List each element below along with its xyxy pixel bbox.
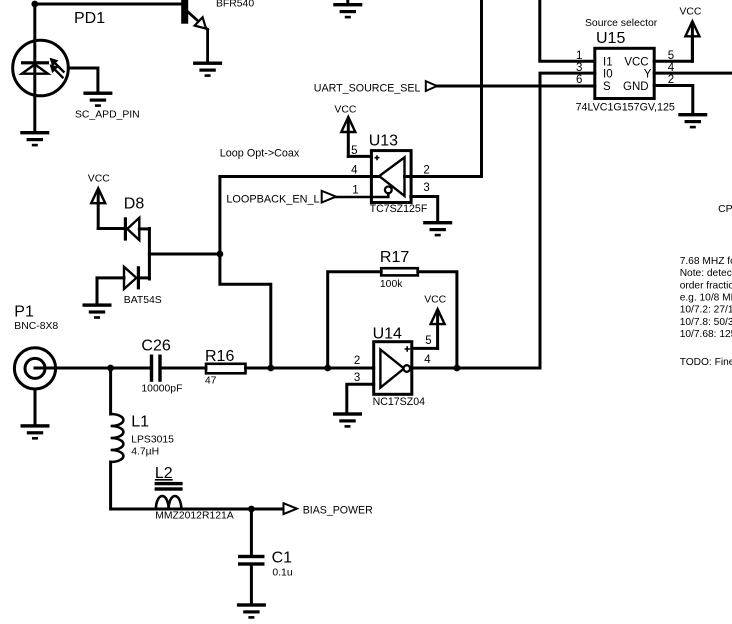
svg-text:GND: GND — [623, 81, 649, 93]
svg-text:I0: I0 — [603, 68, 613, 80]
svg-text:VCC: VCC — [680, 7, 702, 18]
svg-text:BIAS_POWER: BIAS_POWER — [303, 504, 373, 516]
svg-text:D8: D8 — [124, 195, 145, 212]
svg-text:P1: P1 — [14, 304, 34, 321]
svg-text:UART_SOURCE_SEL: UART_SOURCE_SEL — [314, 82, 421, 94]
svg-text:BAT54S: BAT54S — [124, 295, 162, 306]
svg-text:5: 5 — [425, 335, 431, 347]
svg-text:SC_APD_PIN: SC_APD_PIN — [75, 110, 140, 121]
svg-text:R16: R16 — [205, 348, 234, 365]
svg-text:10000pF: 10000pF — [141, 384, 182, 395]
svg-text:e.g. 10/8 MHZ: e.g. 10/8 MHZ — [680, 292, 732, 303]
svg-text:6: 6 — [576, 74, 582, 86]
svg-text:PD1: PD1 — [74, 10, 105, 27]
svg-text:10/7.68: 125/96 M: 10/7.68: 125/96 M — [680, 329, 732, 340]
svg-text:2: 2 — [423, 164, 429, 176]
svg-text:47: 47 — [205, 375, 217, 386]
svg-text:Source selector: Source selector — [585, 18, 658, 29]
svg-text:I1: I1 — [603, 56, 613, 68]
svg-text:2: 2 — [354, 355, 360, 367]
svg-text:BNC-8X8: BNC-8X8 — [14, 321, 58, 332]
svg-text:C26: C26 — [141, 338, 170, 355]
svg-text:Note: detected freq: Note: detected freq — [680, 268, 732, 279]
svg-text:4: 4 — [424, 354, 431, 366]
svg-text:0.1u: 0.1u — [272, 568, 292, 579]
svg-text:74LVC1G157GV,125: 74LVC1G157GV,125 — [576, 101, 675, 113]
svg-text:MMZ2012R121A: MMZ2012R121A — [155, 511, 234, 522]
svg-text:LOOPBACK_EN_L: LOOPBACK_EN_L — [226, 193, 319, 205]
svg-text:Loop Opt->Coax: Loop Opt->Coax — [220, 147, 300, 159]
svg-text:VCC: VCC — [334, 104, 356, 115]
svg-text:Y: Y — [644, 68, 652, 80]
svg-text:10/7.2: 27/13 MHz: 10/7.2: 27/13 MHz — [680, 305, 732, 316]
svg-text:7.68 MHZ for UART: 7.68 MHZ for UART — [680, 256, 732, 267]
svg-text:TODO: Fine tune: TODO: Fine tune — [680, 357, 732, 368]
svg-text:3: 3 — [354, 372, 360, 384]
svg-text:L2: L2 — [155, 465, 173, 482]
svg-text:NC17SZ04: NC17SZ04 — [373, 396, 426, 408]
svg-text:4: 4 — [351, 164, 358, 176]
svg-text:3: 3 — [576, 62, 582, 74]
svg-text:R17: R17 — [380, 249, 409, 266]
svg-text:LPS3015: LPS3015 — [131, 434, 174, 445]
svg-text:CPU: CPU — [718, 203, 732, 215]
svg-text:C1: C1 — [272, 550, 293, 567]
svg-text:100k: 100k — [380, 279, 403, 290]
svg-text:1: 1 — [352, 184, 358, 196]
svg-text:U14: U14 — [373, 325, 402, 342]
svg-text:L1: L1 — [131, 414, 149, 431]
svg-text:U13: U13 — [369, 133, 398, 150]
svg-text:1: 1 — [576, 50, 582, 62]
svg-text:3: 3 — [423, 182, 429, 194]
svg-text:10/7.8: 50/39 MHz: 10/7.8: 50/39 MHz — [680, 317, 732, 328]
svg-text:TC7SZ125F: TC7SZ125F — [370, 203, 428, 215]
svg-text:VCC: VCC — [624, 56, 648, 68]
svg-text:order fractions, e.g: order fractions, e.g — [680, 280, 732, 291]
svg-text:5: 5 — [351, 145, 357, 157]
svg-text:VCC: VCC — [424, 294, 446, 305]
svg-text:U15: U15 — [596, 30, 625, 47]
svg-text:BFR540: BFR540 — [216, 0, 254, 9]
svg-text:4.7µH: 4.7µH — [131, 447, 159, 458]
svg-text:VCC: VCC — [88, 173, 110, 184]
svg-text:S: S — [603, 81, 611, 93]
